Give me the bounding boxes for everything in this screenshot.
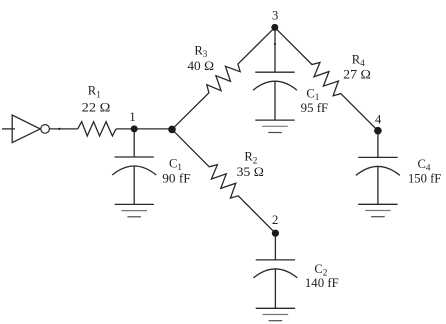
svg-text:C1: C1 xyxy=(169,156,182,172)
svg-text:40 Ω: 40 Ω xyxy=(187,59,214,73)
svg-text:4: 4 xyxy=(375,113,382,127)
svg-text:150 fF: 150 fF xyxy=(408,172,441,186)
svg-text:95 fF: 95 fF xyxy=(301,101,328,115)
svg-text:3: 3 xyxy=(272,8,278,22)
svg-text:R1: R1 xyxy=(88,84,101,100)
svg-text:C1: C1 xyxy=(306,86,319,102)
svg-text:22 Ω: 22 Ω xyxy=(82,100,111,114)
svg-text:R4: R4 xyxy=(352,52,365,68)
svg-text:27 Ω: 27 Ω xyxy=(343,67,371,81)
svg-text:2: 2 xyxy=(272,213,278,227)
svg-text:C4: C4 xyxy=(418,157,431,173)
svg-text:90 fF: 90 fF xyxy=(162,172,190,186)
svg-text:1: 1 xyxy=(129,110,135,124)
svg-text:35 Ω: 35 Ω xyxy=(237,165,264,179)
svg-text:R2: R2 xyxy=(244,150,257,166)
svg-text:R3: R3 xyxy=(194,44,207,60)
svg-text:140 fF: 140 fF xyxy=(305,276,339,290)
